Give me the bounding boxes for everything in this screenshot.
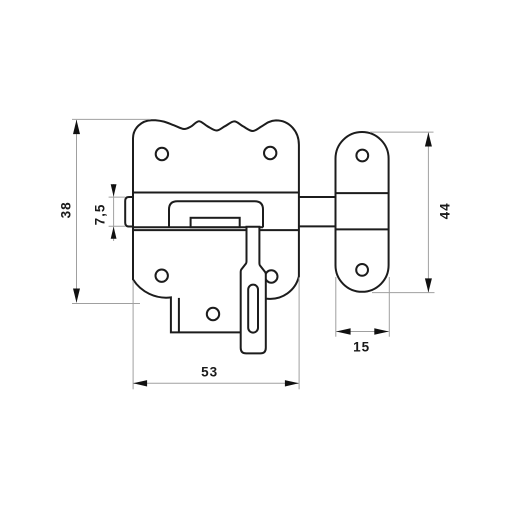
keeper hole top: [356, 150, 368, 162]
svg-text:44: 44: [438, 202, 453, 219]
lever: [241, 227, 266, 354]
svg-text:38: 38: [58, 201, 73, 218]
bolt bottom edge: [133, 226, 263, 228]
dimension 7,5: [109, 184, 126, 241]
dimension 38: [72, 119, 151, 303]
dimension 15: [336, 277, 390, 337]
tab inner fold line: [178, 298, 180, 333]
tab hole: [207, 308, 219, 320]
bolt rod bottom (gap): [299, 225, 336, 227]
dimension 53: [133, 278, 299, 390]
band top line: [133, 192, 299, 194]
keeper band top line: [336, 192, 389, 194]
keeper hole bottom: [356, 264, 368, 276]
bolt knob: [191, 218, 240, 227]
backplate: [133, 120, 299, 332]
band bottom line: [133, 229, 299, 231]
svg-text:15: 15: [353, 339, 370, 354]
dimension 44: [370, 132, 435, 293]
svg-text:53: 53: [201, 365, 218, 380]
screw hole bottom-left: [156, 270, 168, 282]
guide bracket: [169, 201, 263, 227]
lever slot: [248, 285, 258, 333]
screw hole bottom-right: [265, 270, 277, 282]
keeper plate: [336, 132, 389, 292]
svg-text:7,5: 7,5: [92, 204, 107, 226]
screw hole top-left: [156, 148, 168, 160]
screw hole top-right: [264, 147, 276, 159]
bolt rod top (gap): [299, 196, 336, 198]
keeper band bottom line: [336, 228, 389, 230]
bolt end cap: [125, 197, 134, 227]
